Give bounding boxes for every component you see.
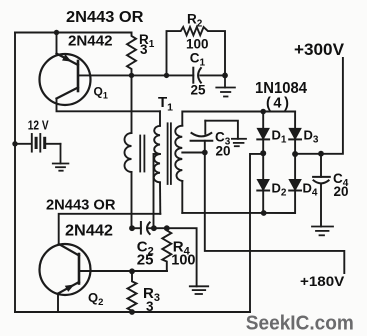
svg-text:2N443 OR: 2N443 OR — [66, 9, 144, 26]
svg-text:+180V: +180V — [300, 273, 345, 289]
svg-text:25: 25 — [191, 83, 207, 98]
svg-text:+300V: +300V — [294, 40, 345, 59]
node B2 (D3-D4 junction) — [292, 151, 298, 157]
svg-text:20: 20 — [216, 144, 231, 159]
node R1 bottom — [129, 73, 134, 78]
core right pair — [168, 123, 171, 184]
transformer T1 primary top entry — [159, 111, 161, 126]
wire left supply rail — [14, 33, 16, 313]
transformer T1 feedback winding — [125, 133, 132, 172]
wire feedback winding to C2 — [131, 172, 133, 228]
node D2 bottom — [261, 210, 267, 216]
svg-text:D2: D2 — [272, 180, 287, 198]
wire B1 jog to bottom rail — [250, 154, 263, 312]
svg-text:3: 3 — [146, 299, 154, 314]
capacitor C2 — [132, 222, 167, 234]
svg-text:D1: D1 — [272, 127, 287, 145]
core left pair — [140, 136, 144, 172]
wire top rail to R1 — [15, 32, 132, 34]
svg-text:T1: T1 — [158, 94, 173, 113]
node R2 left — [164, 73, 169, 78]
svg-text:Q2: Q2 — [88, 290, 103, 308]
wire Q2 collector line — [59, 214, 161, 244]
node C1 right / ground node — [222, 73, 228, 79]
svg-text:3: 3 — [140, 42, 148, 57]
wire C3 top to ground — [205, 121, 238, 139]
svg-text:Q1: Q1 — [94, 85, 108, 101]
svg-text:C1: C1 — [190, 51, 206, 69]
svg-text:20: 20 — [334, 184, 349, 199]
node Q1 emitter junction — [54, 30, 59, 35]
node C4 top — [318, 151, 324, 157]
node C2 right / tap — [151, 225, 157, 231]
capacitor C4 — [313, 154, 330, 227]
node R3 top — [129, 268, 135, 274]
resistor R1 — [127, 33, 136, 76]
capacitor C1 — [167, 68, 226, 83]
node battery tap — [12, 141, 17, 146]
transistor Q2 — [40, 244, 91, 295]
wire Q1 emitter stub — [56, 33, 58, 54]
wire bottom rail — [15, 311, 250, 313]
battery 12V — [15, 134, 61, 152]
diode D2 — [257, 153, 269, 213]
wire feedback winding drop from base node — [131, 75, 133, 133]
transistor Q1 — [40, 54, 91, 106]
svg-text:2N442: 2N442 — [68, 33, 113, 50]
transformer T1 secondary winding — [175, 126, 182, 181]
svg-text:1N1084: 1N1084 — [255, 80, 307, 97]
wire B2 to +300V — [295, 58, 343, 154]
wire secondary top — [182, 112, 295, 126]
wire secondary tap down to +180 — [205, 153, 344, 274]
diode D3 — [289, 112, 301, 155]
ground C3 — [232, 139, 246, 146]
svg-text:12 V: 12 V — [28, 119, 49, 133]
arrow Q1 emitter (PNP) — [62, 54, 72, 61]
node C2 left — [129, 225, 135, 231]
resistor R4 — [162, 228, 171, 271]
svg-text:SeekIC.com: SeekIC.com — [246, 313, 354, 335]
ground C4 — [312, 227, 333, 236]
node R4 top — [164, 225, 170, 231]
wire primary bottom exit — [159, 182, 161, 214]
node R3 bottom — [129, 309, 135, 315]
transformer T1 primary winding — [154, 126, 160, 183]
resistor R3 — [128, 271, 137, 312]
wire C2 row to ground — [167, 228, 197, 286]
wire Q2 emitter to bottom rail — [57, 294, 59, 313]
node secondary tap / C3 — [202, 150, 208, 156]
node D1 top — [260, 109, 266, 115]
wire Q2 base line — [79, 270, 167, 272]
ground main — [190, 286, 208, 294]
svg-text:D3: D3 — [304, 127, 319, 145]
svg-text:2N442: 2N442 — [65, 223, 113, 240]
wire Q1 base line — [78, 74, 167, 76]
svg-text:D4: D4 — [303, 180, 318, 198]
wire secondary bottom — [181, 181, 183, 213]
arrow Q2 emitter (PNP) — [65, 285, 75, 292]
ground below C1 — [216, 75, 235, 96]
ground battery — [53, 144, 69, 171]
wire secondary center tap — [182, 152, 205, 154]
wire node C line (secondary bottom to D2 D4) — [182, 212, 294, 214]
svg-text:100: 100 — [171, 253, 195, 269]
svg-text:2N443 OR: 2N443 OR — [46, 198, 116, 214]
diode D4 — [289, 154, 301, 213]
wire Q1 collector — [57, 99, 161, 112]
svg-text:25: 25 — [137, 252, 154, 269]
wire primary center tap — [154, 154, 161, 228]
svg-text:(4): (4) — [266, 96, 292, 112]
svg-text:100: 100 — [186, 37, 209, 52]
capacitor C3 — [191, 121, 213, 153]
diode D1 — [257, 112, 269, 154]
resistor R2 — [167, 27, 226, 75]
node B1 (D1-D2 junction) — [260, 150, 266, 156]
